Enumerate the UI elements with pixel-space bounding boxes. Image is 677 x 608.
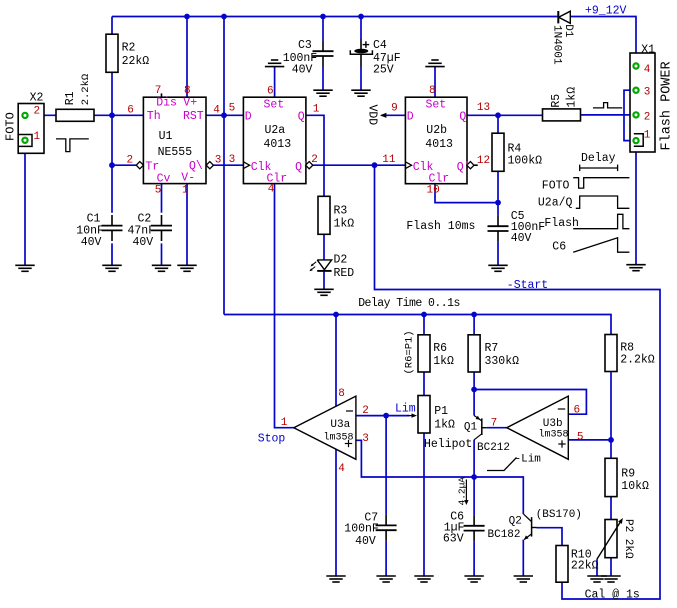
svg-text:R1: R1 <box>64 91 77 105</box>
wire Q1 collector down to ramp node <box>473 440 475 477</box>
svg-text:2: 2 <box>34 106 41 118</box>
svg-text:Q': Q' <box>457 161 471 174</box>
svg-text:1: 1 <box>182 184 189 196</box>
svg-text:P2 2kΩ: P2 2kΩ <box>622 519 634 559</box>
wire U3a pin3 loop to ramp node line y=477 <box>356 440 523 514</box>
junction top bus at U1 V+ column <box>184 14 190 20</box>
svg-text:5: 5 <box>577 432 584 444</box>
wire U3b pin5 to R8/R9 node <box>568 439 611 441</box>
svg-text:40V: 40V <box>355 535 376 548</box>
ground X2 pin1 <box>15 264 34 266</box>
svg-text:4: 4 <box>338 463 345 475</box>
wire R2 bottom down through Tr junction to C1 <box>111 72 113 212</box>
wire R7 bottom to Q1 emitter <box>473 372 475 416</box>
svg-text:4013: 4013 <box>425 138 453 151</box>
svg-text:5: 5 <box>155 184 162 196</box>
wire C4 from bus down <box>360 17 362 40</box>
svg-text:8: 8 <box>429 85 436 97</box>
svg-text:63V: 63V <box>443 533 464 546</box>
svg-text:2: 2 <box>127 154 134 166</box>
ground C1 <box>102 264 121 266</box>
junction ramp node at C6 <box>471 474 477 480</box>
junction top bus at C4 <box>358 14 364 20</box>
ground P2 wiper <box>587 575 606 577</box>
svg-text:40V: 40V <box>81 236 102 249</box>
svg-text:Q: Q <box>298 110 305 123</box>
junction top bus at C3 <box>320 14 326 20</box>
wire R1 to Th junction to U1 pin6 <box>94 114 143 116</box>
svg-text:RST: RST <box>183 110 204 123</box>
wire X1 internal pin3 to pin1 <box>624 90 633 140</box>
svg-text:R9: R9 <box>621 468 635 481</box>
svg-text:C3: C3 <box>298 39 312 52</box>
svg-text:-Lim: -Lim <box>515 454 542 466</box>
svg-text:330kΩ: 330kΩ <box>485 355 520 368</box>
pin 2 of X1 <box>633 112 638 117</box>
wire C6 bottom to ground <box>473 541 475 576</box>
flash trigger pulse glyph near X1 <box>593 103 622 108</box>
wire pin6 feedback loop <box>474 390 586 415</box>
resistor R3 <box>318 196 330 234</box>
wire C3 bottom to ground <box>322 67 324 91</box>
svg-text:3: 3 <box>644 86 651 98</box>
svg-text:V+: V+ <box>183 96 197 109</box>
svg-text:10kΩ: 10kΩ <box>621 480 649 493</box>
svg-text:40V: 40V <box>292 64 313 77</box>
pin 2 of X2 <box>22 113 27 118</box>
svg-text:R7: R7 <box>485 342 499 355</box>
ground X1 pin1 <box>626 264 645 266</box>
svg-text:Q2: Q2 <box>509 515 522 527</box>
wire C5 bottom to ground <box>497 242 499 266</box>
capacitor C7 <box>385 515 387 526</box>
ground P1 <box>414 575 433 577</box>
svg-text:100kΩ: 100kΩ <box>508 155 543 168</box>
svg-text:2: 2 <box>644 112 651 124</box>
wire R4 bottom to C5 junction <box>497 171 499 202</box>
wire C7 bottom to ground <box>385 541 387 576</box>
wire C5 top <box>497 203 499 216</box>
svg-text:+9_12V: +9_12V <box>585 4 627 17</box>
transistor Q2 BC182 NPN <box>531 517 533 537</box>
svg-text:13: 13 <box>477 102 490 114</box>
svg-text:R2: R2 <box>122 41 136 54</box>
svg-text:Lim: Lim <box>395 403 416 416</box>
svg-text:Q1: Q1 <box>464 422 478 434</box>
wire X2 pin1 down to ground <box>24 143 26 265</box>
wire D2 cathode to ground <box>323 271 325 289</box>
svg-text:Th: Th <box>147 110 161 123</box>
svg-text:D1: D1 <box>562 24 574 38</box>
inverted ground U2a Set <box>265 66 284 68</box>
capacitor C3 <box>322 41 324 52</box>
wire U2a Q' pin2 to U2b Clk pin11 <box>313 164 406 166</box>
svg-text:2: 2 <box>311 154 318 166</box>
wire R8 bottom to junction <box>610 372 612 440</box>
wire R7 top from bus <box>473 315 475 335</box>
wire C4 bottom to ground <box>360 67 362 91</box>
svg-text:Q: Q <box>459 110 466 123</box>
svg-text:R3: R3 <box>334 205 348 218</box>
wire U3a pin4 V- down to ground <box>335 449 337 576</box>
resistor R9 <box>605 458 617 496</box>
wire Clr pin10 of U2b down and left <box>435 184 498 203</box>
pin 4 of X1 <box>633 63 638 68</box>
svg-text:40V: 40V <box>511 232 532 245</box>
op-amp U3a lm358 <box>294 396 356 459</box>
resistor R8 <box>605 335 617 372</box>
svg-text:P1: P1 <box>434 405 448 418</box>
svg-text:R5: R5 <box>550 94 563 108</box>
wire top supply bus from R2 to D1 anode <box>112 16 558 18</box>
inverted ground U2b Set <box>425 66 444 68</box>
wire Lim node down to C7 <box>385 416 387 515</box>
wire U1 pin5 Cv down to C2 <box>161 184 163 213</box>
svg-text:7: 7 <box>491 418 498 430</box>
wire RST column x=224 from bus down to lower bus <box>223 17 225 315</box>
pin 2 Q' of U2a with inverted diamond <box>306 162 313 169</box>
svg-text:22kΩ: 22kΩ <box>571 560 599 573</box>
resistor R4 <box>492 133 504 171</box>
svg-text:D: D <box>245 110 252 123</box>
wire U1 pin8 V+ up to bus <box>186 17 188 98</box>
pin 1 of X2 <box>22 138 27 143</box>
wire Q2 emitter to ground <box>522 540 524 576</box>
svg-text:8: 8 <box>338 388 345 400</box>
resistor R7 <box>468 335 480 372</box>
ground C4 <box>351 89 370 91</box>
pin 2 Tr of U1 with inverted diamond <box>136 162 143 169</box>
svg-text:4.2µA: 4.2µA <box>457 477 468 506</box>
svg-text:Delay: Delay <box>581 152 616 165</box>
junction Q13/R4/R5 node <box>495 112 501 118</box>
node VDD arrow at U2b D input <box>380 113 387 118</box>
svg-text:BC182: BC182 <box>488 529 521 541</box>
svg-text:2.2kΩ: 2.2kΩ <box>80 74 92 106</box>
svg-text:Cal @ 1s: Cal @ 1s <box>585 589 640 602</box>
pin 12 Q' of U2b with inverted diamond <box>467 162 474 169</box>
svg-text:U2a/Q: U2a/Q <box>538 196 573 209</box>
wire R2 top drop <box>111 17 113 35</box>
ground U1 V- <box>177 264 196 266</box>
svg-text:U2b: U2b <box>426 124 447 137</box>
ground C5 <box>488 264 507 266</box>
junction top bus at RST column <box>221 14 227 20</box>
pin 3 Q\ of U1 with inverted diamond <box>206 162 213 169</box>
svg-text:-Start: -Start <box>507 279 548 292</box>
svg-text:lm358: lm358 <box>539 428 569 440</box>
junction Th/R1/R2 node <box>109 112 115 118</box>
svg-text:4: 4 <box>213 105 220 117</box>
svg-text:12: 12 <box>477 155 490 167</box>
wire U1 pin1 V- down to ground <box>186 184 188 266</box>
svg-text:(R6=P1): (R6=P1) <box>404 330 416 374</box>
svg-text:1kΩ: 1kΩ <box>434 419 455 432</box>
svg-text:U1: U1 <box>159 130 173 143</box>
svg-text:Clr: Clr <box>267 173 288 186</box>
ground P2 bottom <box>601 575 620 577</box>
junction bus at U3a pin8 <box>333 312 339 318</box>
wire P2 bottom to ground <box>610 558 612 576</box>
wire C3 from bus down <box>322 17 324 41</box>
svg-text:1: 1 <box>313 104 320 116</box>
svg-text:Stop: Stop <box>258 433 286 446</box>
junction Lim node <box>383 413 389 419</box>
svg-text:3: 3 <box>362 433 369 445</box>
resistor R2 <box>106 34 118 72</box>
wire U3a pin8 V+ from bus down <box>335 315 337 407</box>
resistor R5 <box>543 109 581 121</box>
svg-text:4: 4 <box>644 64 651 76</box>
wire U3a pin2 to Lim node <box>356 415 410 417</box>
current annotation 4.2uA arrow <box>465 480 467 502</box>
ground C2 <box>152 264 171 266</box>
pin 7 Dis stub of U1 <box>161 93 163 97</box>
LED D2 <box>317 260 331 270</box>
capacitor C6 <box>473 515 475 526</box>
junction bus at R7 <box>471 312 477 318</box>
svg-text:FOTO: FOTO <box>542 179 570 192</box>
svg-text:1N4001: 1N4001 <box>550 25 562 65</box>
svg-text:C6: C6 <box>552 241 566 254</box>
svg-text:Set: Set <box>264 99 285 112</box>
svg-text:8: 8 <box>184 85 191 97</box>
svg-text:Helipot: Helipot <box>424 438 472 451</box>
svg-text:1: 1 <box>644 130 651 142</box>
ramp clamp glyph with label -Lim <box>487 458 517 471</box>
pin 3 of X1 <box>633 88 638 93</box>
wire P2 wiper to ground <box>596 559 598 576</box>
svg-text:3: 3 <box>215 154 222 166</box>
svg-text:NE555: NE555 <box>158 146 193 159</box>
svg-text:FOTO: FOTO <box>4 112 18 141</box>
junction R8/R9/pin5 node <box>608 437 614 443</box>
wire U2a Set pin6 up to inverted ground <box>274 67 276 98</box>
wire R4 top <box>497 115 499 133</box>
svg-text:1kΩ: 1kΩ <box>433 355 454 368</box>
wire R6 top from bus <box>423 315 425 335</box>
capacitor C2 <box>161 215 163 226</box>
svg-text:2: 2 <box>362 405 369 417</box>
flip-flop U2a 4013 <box>243 97 306 183</box>
svg-text:Clr: Clr <box>429 173 450 186</box>
svg-text:Set: Set <box>426 99 447 112</box>
svg-text:RED: RED <box>334 267 355 280</box>
svg-text:V-: V- <box>181 172 195 185</box>
wire U2b Q pin13 to R5 <box>467 114 543 116</box>
wire C1 bottom to ground <box>111 243 113 265</box>
transistor Q1 BC212 PNP <box>481 418 483 435</box>
svg-text:VDD: VDD <box>365 105 378 126</box>
wire R5 to X1 pin2 <box>581 114 633 116</box>
svg-text:BC212: BC212 <box>477 442 510 454</box>
op-amp U3b lm358 <box>507 396 569 459</box>
op-amp timer U1 NE555 <box>143 97 206 183</box>
svg-text:D: D <box>407 110 414 123</box>
svg-text:X1: X1 <box>641 43 655 56</box>
FOTO trigger pulse glyph <box>56 139 89 152</box>
wire U3b pin7 output to Q1 base <box>487 427 507 429</box>
ground C3 <box>313 89 332 91</box>
svg-text:100nF: 100nF <box>344 522 379 535</box>
ground C6 <box>464 575 483 577</box>
svg-text:Flash 10ms: Flash 10ms <box>406 220 475 233</box>
svg-text:Flash POWER: Flash POWER <box>660 61 675 150</box>
svg-text:X2: X2 <box>30 92 44 105</box>
junction Tr/C1 node <box>109 162 115 168</box>
svg-text:11: 11 <box>382 154 396 166</box>
svg-text:Delay Time 0..1s: Delay Time 0..1s <box>358 297 460 310</box>
capacitor C1 <box>111 215 113 226</box>
svg-text:4013: 4013 <box>264 138 292 151</box>
svg-text:Cv: Cv <box>157 172 171 185</box>
svg-text:D2: D2 <box>334 254 348 267</box>
pin 11 Clk of U2b with clock mark <box>405 162 411 169</box>
svg-text:7: 7 <box>155 85 162 97</box>
svg-text:10: 10 <box>427 185 440 197</box>
wire D1 cathode to X1 pin4 corner <box>571 17 637 64</box>
wire VDD arrow to U2b D pin9 <box>382 114 406 116</box>
wire Tr junction to U1 pin2 diamond <box>112 164 136 166</box>
wire R6 bottom to P1 top <box>423 372 425 396</box>
svg-text:1kΩ: 1kΩ <box>334 218 355 231</box>
junction R4/C5/Clr node <box>495 200 501 206</box>
potentiometer P2 with wiper arrow <box>605 520 617 558</box>
junction RST/D net at x=224 <box>221 112 227 118</box>
junction bus at R6 <box>421 312 427 318</box>
ground D2 <box>314 288 333 290</box>
wire Q2 base to R10 top <box>537 528 563 546</box>
wire Stop net: U2a Clr pin4 down to U3a output pin1 <box>275 184 294 428</box>
svg-text:6: 6 <box>127 105 134 117</box>
wire U2a Q pin1 right and down to R3 <box>306 115 324 196</box>
wire junction to R9 top <box>610 440 612 458</box>
svg-text:C4: C4 <box>373 39 387 52</box>
diode D1 1N4001 <box>557 11 559 23</box>
pin 3 Clk of U2a with clock mark <box>243 162 249 169</box>
resistor R1 <box>56 109 94 121</box>
potentiometer P1 <box>418 396 430 434</box>
svg-text:6: 6 <box>267 86 274 98</box>
wire U1 Q\ pin3 to U2a Clk pin3 <box>213 164 243 166</box>
svg-text:U2a: U2a <box>265 124 286 137</box>
capacitor C4 electrolytic <box>360 39 362 50</box>
junction R7/Q1 emitter/pin6 node <box>471 387 477 393</box>
wire R9 bottom to P2 top <box>610 497 612 520</box>
wire C6 top <box>473 477 475 515</box>
svg-text:Dis: Dis <box>156 96 177 109</box>
svg-text:1kΩ: 1kΩ <box>566 87 579 108</box>
svg-text:(BS170): (BS170) <box>536 509 582 521</box>
wire R3 bottom to D2 LED <box>323 234 325 259</box>
junction Q'(U2a) net split <box>372 162 378 168</box>
svg-text:1: 1 <box>34 131 41 143</box>
wire X1 pin1 down to ground <box>635 144 637 265</box>
svg-text:Q': Q' <box>295 161 309 174</box>
wire C2 bottom to ground <box>161 243 163 265</box>
wire U1 RST pin4 to U2a D pin5 <box>206 114 243 116</box>
svg-text:U3a: U3a <box>330 419 350 431</box>
svg-text:5: 5 <box>229 103 236 115</box>
pin 1 of X1 <box>633 138 638 143</box>
svg-text:U3b: U3b <box>543 418 563 430</box>
ground C7 <box>376 575 395 577</box>
svg-text:6: 6 <box>574 405 581 417</box>
svg-text:R6: R6 <box>433 342 447 355</box>
wire -Start net: down from Q' junction, right, to far right column <box>375 165 661 599</box>
ground U3a pin4 <box>326 575 345 577</box>
svg-text:3: 3 <box>229 154 236 166</box>
svg-text:1: 1 <box>281 417 288 429</box>
svg-text:40V: 40V <box>133 236 154 249</box>
ground Q2 emitter <box>514 575 533 577</box>
capacitor C5 <box>497 216 499 227</box>
svg-text:22kΩ: 22kΩ <box>122 55 150 68</box>
wire X2 pin2 to R1 <box>28 114 56 116</box>
wire P1 bottom to ground <box>423 433 425 576</box>
wire lower horizontal bus y=314.5 <box>224 315 611 335</box>
flip-flop U2b 4013 <box>405 97 467 184</box>
wire U2b Set pin8 up to inverted ground <box>434 67 436 98</box>
svg-text:2.2kΩ: 2.2kΩ <box>620 354 655 367</box>
resistor R10 <box>556 546 568 583</box>
connector X1 <box>630 53 655 152</box>
svg-text:9: 9 <box>391 103 398 115</box>
svg-text:25V: 25V <box>373 64 394 77</box>
connector X2 <box>18 104 44 154</box>
resistor R6 <box>418 335 430 372</box>
